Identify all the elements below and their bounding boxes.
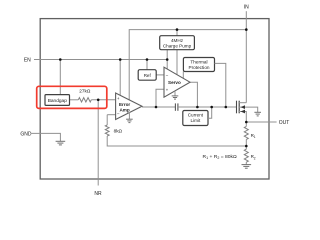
wire error amp output gate line left [142,106,175,108]
ground R2 [242,165,252,169]
svg-text:1: 1 [254,135,256,139]
wire IN vertical [245,11,247,103]
ground GND pin [56,141,66,145]
wire bandgap to 27k node to error amp + input [70,99,79,101]
wire error amp enable [119,60,121,96]
svg-text:EN: EN [24,57,31,63]
wire bandgap enable [59,60,61,95]
wire error amp inverting input [107,114,115,116]
wire servo output [190,82,197,107]
resistor 8k [105,125,109,136]
wire R2 to ground [245,162,247,164]
wire OUT [246,121,276,123]
wire NR [97,100,99,186]
svg-text:R1 + R2 = 80kΩ: R1 + R2 = 80kΩ [203,154,238,160]
svg-text:27kΩ: 27kΩ [79,89,91,94]
wire thermal to servo stub [182,72,184,79]
wire R1 to R2 [245,139,247,149]
svg-text:2: 2 [254,156,256,160]
wire OUT node to R1 [245,122,247,126]
block current limit [183,111,208,126]
wire feedback line [107,136,246,146]
ground servo [172,91,179,99]
wire current limit to gate line [208,107,212,118]
node junction dots [59,28,248,147]
svg-text:Protection: Protection [188,65,209,70]
wire servo non-inverting tap [156,89,164,107]
transistor Q1 drain stub [239,112,246,123]
svg-text:Servo: Servo [168,80,181,85]
transistor Q1 pass FET gate bar [236,101,238,114]
svg-text:Bandgap: Bandgap [48,98,68,104]
wire FB to 8k [106,115,108,125]
block bandgap [45,95,70,106]
block 4MHz charge pump [160,36,195,50]
wire EN [34,59,167,61]
resistor 27k [78,98,91,102]
red highlight box around bandgap and 27k [37,86,107,108]
svg-text:NR: NR [94,191,102,197]
wire Ref supply [146,60,148,70]
wire 27k node line [91,99,115,101]
block Ref U-ref [138,70,156,81]
svg-text:8kΩ: 8kΩ [114,128,123,133]
block thermal protection [183,58,214,72]
transistor Q1 body arrow [241,105,245,109]
wire GND [32,133,61,141]
transistor Q1 body stub [239,107,258,112]
ground error amp [126,112,133,123]
svg-text:Current: Current [188,113,204,118]
svg-text:GND: GND [20,131,32,137]
svg-text:OUT: OUT [279,120,290,126]
transistor Q1 source stub [239,102,246,104]
transistor Q1 drain arrow [241,110,245,114]
svg-text:Ref: Ref [144,73,152,78]
svg-text:Thermal: Thermal [190,60,207,65]
op-amp servo [164,67,190,97]
wire EN to charge pump and servo [166,50,168,69]
resistor R2 [244,149,248,162]
op-amp error amp [116,93,142,120]
wire IN internal bus [129,30,246,100]
svg-text:4MHz: 4MHz [171,38,184,43]
capacitor feed-forward [175,103,178,110]
transistor Q1 channel bar [238,101,240,114]
chip boundary box [40,19,269,179]
wire charge pump top [176,30,178,36]
wire gate line right [178,106,237,108]
svg-text:Amp: Amp [119,108,129,113]
svg-text:IN: IN [244,5,249,11]
svg-text:Limit: Limit [191,118,201,123]
svg-text:Error: Error [119,102,130,107]
ground Q1 body [254,112,261,116]
svg-text:−: − [166,73,169,78]
resistor R1 [244,126,248,139]
wire Ref to servo inverting input [156,74,164,76]
svg-text:Charge Pump: Charge Pump [163,43,192,48]
wire charge pump output to servo [176,50,178,75]
wire thermal protection to gate line [215,63,226,107]
